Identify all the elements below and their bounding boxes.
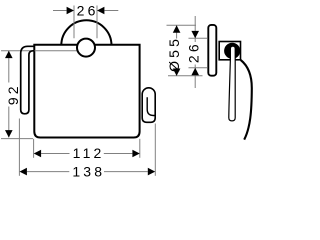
cover plate (front view) bbox=[34, 45, 139, 138]
right hook inner curl bbox=[147, 97, 154, 115]
wall plate (side view) bbox=[208, 25, 216, 76]
svg-text:112: 112 bbox=[73, 145, 105, 161]
dim 138: arrows bbox=[20, 168, 27, 176]
holder rod (side view) bbox=[229, 46, 235, 121]
dim Ø55: arrows bbox=[173, 25, 181, 32]
dim 26 side: extension lines bbox=[189, 37, 208, 39]
dome (mount cap, front view) bbox=[61, 20, 111, 45]
dim 92: bottom extension bbox=[1, 138, 33, 140]
holder arm curve (side view) bbox=[241, 60, 252, 140]
dim 26 side: line segments bbox=[194, 16, 196, 42]
dim 26 top: arrows bbox=[67, 7, 74, 15]
dim Ø55: extension lines bbox=[167, 24, 197, 26]
dim 112: line segments bbox=[41, 153, 69, 155]
rod left end (pill, front view) bbox=[21, 46, 35, 114]
dim 138: extension lines bbox=[18, 119, 20, 176]
dim 26 top: line tails bbox=[53, 10, 67, 12]
mount circle (front view) bbox=[77, 39, 95, 57]
dim 138: line segments bbox=[27, 171, 69, 173]
roll axis disc (side view) bbox=[224, 43, 240, 59]
svg-text:92: 92 bbox=[5, 83, 21, 105]
dim 92: line segments bbox=[8, 51, 10, 83]
mount block (side view) bbox=[219, 42, 240, 60]
dim 26 top: extension lines bbox=[73, 6, 75, 39]
svg-text:Ø55: Ø55 bbox=[166, 36, 182, 72]
svg-text:138: 138 bbox=[72, 163, 105, 179]
svg-text:26: 26 bbox=[77, 3, 99, 19]
svg-text:26: 26 bbox=[185, 41, 201, 63]
dim 112: extension lines bbox=[33, 139, 35, 158]
dim Ø55: line segments bbox=[176, 25, 178, 38]
roll holder bar bottom edge / 92 top extension bbox=[1, 50, 77, 52]
dim 112: arrows bbox=[34, 150, 41, 158]
dim 92: arrows bbox=[5, 51, 13, 58]
dim 26 side: arrows bbox=[191, 31, 199, 38]
right hook outer (rod right end, front view) bbox=[142, 88, 155, 123]
